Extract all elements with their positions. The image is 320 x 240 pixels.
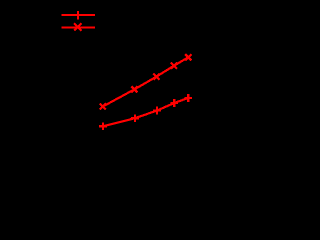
series 2 cross marker p3 <box>153 74 159 80</box>
series 2 (upper) polyline <box>103 57 189 106</box>
series 1 plus marker p5 <box>184 94 192 102</box>
legend entry 1 sample line <box>62 14 95 16</box>
series 1 plus marker p3 <box>153 107 161 115</box>
legend entry 2 sample line <box>62 26 95 28</box>
series 1 plus marker p2 <box>131 114 139 122</box>
legend entry 2 cross marker <box>74 23 81 30</box>
series 1 plus marker p1 <box>99 122 107 130</box>
legend entry 1 plus marker <box>74 11 83 20</box>
series 1 (lower) polyline <box>103 98 188 126</box>
series 2 cross marker p5 <box>185 54 191 60</box>
series 2 cross marker p4 <box>171 63 177 69</box>
series 2 cross marker p1 <box>100 103 106 109</box>
series 2 cross marker p2 <box>131 86 137 92</box>
series 1 plus marker p4 <box>170 99 178 107</box>
